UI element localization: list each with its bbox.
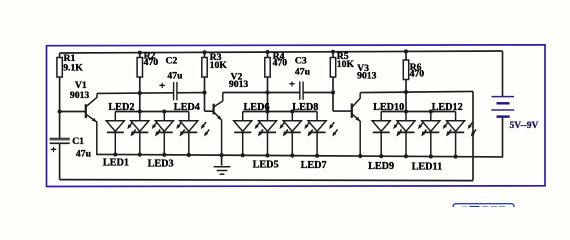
svg-text:470: 470 xyxy=(144,57,159,68)
svg-text:LED10: LED10 xyxy=(373,102,404,113)
node: LED7 anode junction xyxy=(290,109,294,113)
resistor R4 xyxy=(265,58,270,78)
svg-text:47u: 47u xyxy=(76,149,92,160)
svg-text:LED3: LED3 xyxy=(148,159,174,170)
svg-text:LED8: LED8 xyxy=(292,102,318,113)
LED5 symbol xyxy=(234,112,263,137)
svg-text:LED2: LED2 xyxy=(108,102,134,113)
svg-text:47u: 47u xyxy=(167,71,183,82)
resistor R1 xyxy=(57,58,62,78)
transistor V1 9013 (NPN) xyxy=(85,104,87,118)
wire: V1 base wire xyxy=(60,111,86,113)
svg-text:10K: 10K xyxy=(337,59,355,70)
svg-text:5V--9V: 5V--9V xyxy=(510,121,539,131)
LED9 symbol xyxy=(372,112,401,137)
svg-text:10K: 10K xyxy=(210,60,228,71)
wire: LED11 cathode lead xyxy=(430,132,432,157)
wire: C3 right wire to R5/V3 base node xyxy=(303,92,333,94)
wire: LED group 1 anode rail xyxy=(115,111,189,113)
svg-text:LED7: LED7 xyxy=(301,160,327,171)
node: cathode rail junctions xyxy=(113,152,117,156)
wire: R4 branch from top rail xyxy=(267,52,269,92)
node: R3 top rail junction xyxy=(202,50,206,54)
wire: LED6 cathode lead xyxy=(267,132,269,156)
wire: LED group 3 anode rail xyxy=(381,111,455,113)
LED11 symbol xyxy=(422,112,451,137)
node: LED2 anode junction xyxy=(138,109,142,113)
battery 5V-9V xyxy=(502,51,504,96)
node: R2 bottom junction xyxy=(138,91,142,95)
LED3 symbol xyxy=(155,112,184,137)
frame: blue schematic border xyxy=(47,45,546,187)
wire: stage3 drop to LED group 3 rail xyxy=(405,92,407,112)
svg-text:C2: C2 xyxy=(166,55,178,66)
svg-text:LED11: LED11 xyxy=(412,161,443,172)
svg-text:LED5: LED5 xyxy=(253,160,279,171)
wire: LED7 cathode lead xyxy=(291,132,293,156)
svg-text:9013: 9013 xyxy=(229,79,249,90)
node: LED11 anode junction xyxy=(429,109,433,113)
wire: top supply rail xyxy=(60,51,503,53)
wire: LED9 cathode lead xyxy=(380,132,382,157)
svg-text:C1: C1 xyxy=(72,136,84,147)
wire: LED12 cathode lead xyxy=(455,132,457,157)
ground symbol at V2 emitter xyxy=(221,155,223,165)
wire: R6 branch from top rail xyxy=(405,51,407,92)
svg-text:470: 470 xyxy=(273,57,288,68)
LED4 symbol xyxy=(180,112,209,137)
svg-text:LED9: LED9 xyxy=(368,161,394,172)
LED10 symbol xyxy=(397,112,426,137)
svg-text:LED1: LED1 xyxy=(103,157,129,168)
svg-text:+: + xyxy=(289,79,295,91)
wire: LED10 cathode lead xyxy=(405,132,407,157)
LED1 symbol xyxy=(106,112,135,137)
wire: LED3 cathode lead xyxy=(163,132,165,155)
svg-text:+: + xyxy=(50,144,56,156)
wire: stage1 collector node horizontal (V1 collector to C2) xyxy=(97,92,174,95)
resistor R6 xyxy=(403,60,408,80)
wire: stage1 drop from collector node to LED group 1 rail xyxy=(139,93,141,112)
svg-text:9.1K: 9.1K xyxy=(63,62,83,73)
transistor V2 9013 (NPN) xyxy=(213,104,215,115)
node: R4 bottom junction xyxy=(265,90,269,94)
resistor R5 xyxy=(330,58,335,78)
resistor R2 xyxy=(137,58,142,78)
node: LED3 anode junction xyxy=(162,109,166,113)
wire: stage2 collector node horizontal (V2 collector to C3) xyxy=(223,92,300,94)
LED7 symbol xyxy=(283,112,312,137)
svg-text:C3: C3 xyxy=(295,55,307,66)
wire: common cathode/ground rail xyxy=(97,154,503,157)
wire: LED1 cathode lead xyxy=(114,132,116,155)
wire: bottom feedback rail xyxy=(60,180,473,181)
wire: feedback vertical from stage3 collector down to bottom rail xyxy=(472,91,474,180)
LED8 symbol xyxy=(308,112,337,137)
node: R4 top rail junction xyxy=(265,50,269,54)
node: LED10 anode junction xyxy=(404,109,408,113)
wire: stage3 collector node horizontal (V3 collector to feedback) xyxy=(360,91,473,92)
capacitor C2 (polarized, horizontal) xyxy=(173,82,175,100)
transistor V3 9013 (NPN) xyxy=(351,103,353,118)
node: V1 base junction on left rail xyxy=(58,109,62,113)
svg-text:47u: 47u xyxy=(295,67,311,78)
node: C3/R5 junction xyxy=(331,90,335,94)
wire: LED2 cathode lead xyxy=(139,132,141,155)
svg-text:LED6: LED6 xyxy=(244,102,270,113)
capacitor C1 (polarized, vertical) xyxy=(50,137,70,139)
node: R2 top rail junction xyxy=(138,51,142,55)
wire: stage2 drop to LED group 2 rail xyxy=(267,93,269,112)
LED2 symbol xyxy=(131,112,160,137)
svg-text:LED12: LED12 xyxy=(432,102,463,113)
resistor R3 xyxy=(202,58,207,78)
node: LED6 anode junction xyxy=(265,109,269,113)
node: R5 top rail junction xyxy=(331,50,335,54)
node: R6 bottom junction xyxy=(404,90,408,94)
wire: R2 branch from top rail down to collector node xyxy=(139,53,141,93)
svg-text:+: + xyxy=(159,80,165,92)
wire: LED8 cathode lead xyxy=(316,132,318,156)
svg-text:9013: 9013 xyxy=(357,71,377,82)
node: C2/R3 junction xyxy=(202,91,206,95)
wire: C1 bottom lead down to bottom rail xyxy=(59,143,61,179)
node: R6 top rail junction xyxy=(404,49,408,53)
wire: LED group 2 anode rail xyxy=(243,111,317,113)
wire: LED4 cathode lead xyxy=(188,132,190,155)
wire: LED5 cathode lead xyxy=(242,132,244,156)
wire: C2 right wire to R3/V2 base node xyxy=(177,92,205,94)
svg-text:9013: 9013 xyxy=(70,90,90,101)
svg-text:LED4: LED4 xyxy=(174,102,200,113)
wire: V2 base wire xyxy=(205,110,214,112)
LED6 symbol xyxy=(259,112,288,137)
wire: R5 branch from top rail down xyxy=(332,52,334,111)
svg-text:470: 470 xyxy=(410,68,425,79)
partial button at bottom edge xyxy=(453,204,514,216)
wire: V3 base wire xyxy=(333,110,352,112)
capacitor C3 (polarized, horizontal) xyxy=(299,82,301,100)
LED12 symbol xyxy=(447,112,476,137)
wire: R3 branch from top rail down xyxy=(204,52,206,111)
wire: left rail from top rail down through R1 to C1 xyxy=(59,53,61,138)
